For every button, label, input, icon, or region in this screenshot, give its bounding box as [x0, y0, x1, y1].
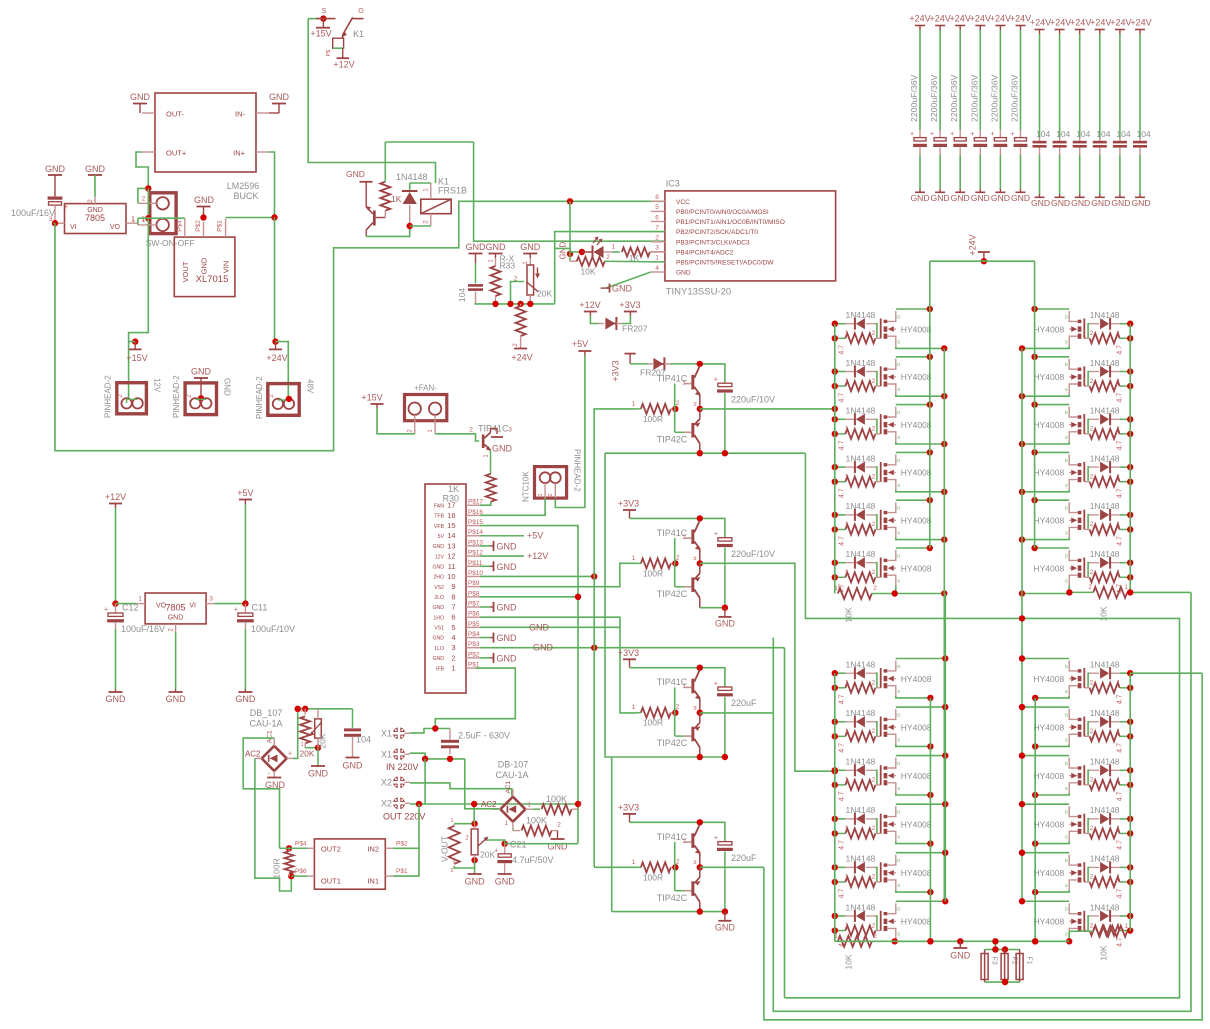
svg-text:S: S	[897, 339, 900, 344]
wire source QUR2	[1019, 393, 1069, 399]
svg-text:2: 2	[1088, 585, 1092, 591]
diode 1N4148 QUL6	[845, 549, 875, 569]
svg-text:S: S	[897, 578, 900, 583]
diode 1N4148 QUL1	[845, 310, 875, 330]
svg-text:1: 1	[538, 493, 544, 496]
wire diode loop QLL2	[835, 722, 877, 737]
svg-text:5: 5	[655, 204, 659, 211]
svg-text:GND: GND	[432, 656, 444, 662]
svg-text:TIP42C: TIP42C	[657, 434, 688, 444]
svg-text:C12: C12	[122, 603, 139, 613]
supply +3V3 stage2	[618, 499, 639, 519]
svg-text:AC2: AC2	[245, 750, 261, 759]
svg-text:IN1: IN1	[367, 876, 379, 885]
svg-text:2: 2	[873, 586, 877, 592]
MOSFET HY4008 QLL4	[881, 806, 932, 841]
supply +12V mid-left	[105, 492, 126, 604]
wire bottom-left bus to relay and IC3 VCC	[55, 201, 665, 450]
diode 1N4148 QUR4	[1090, 453, 1120, 473]
svg-text:GND: GND	[1091, 198, 1110, 208]
ground GND at P$2	[480, 653, 517, 664]
svg-text:PB3/PCINT3/CLKI/ADC3: PB3/PCINT3/CLKI/ADC3	[676, 239, 750, 246]
svg-text:PINHEAD-2: PINHEAD-2	[255, 376, 264, 419]
wire +24V node to pinhead3 pin	[276, 342, 289, 399]
wire source QLL5	[896, 889, 934, 895]
wire drain bus lower-left join	[944, 594, 946, 902]
capacitor 100uF/16V C_in	[11, 175, 68, 223]
wire drain QLL6	[896, 898, 949, 904]
resistor R 100R stage4	[632, 858, 680, 882]
wire PB3 net vertical	[474, 142, 665, 241]
resistor 4.7 QLR3	[1084, 778, 1130, 802]
wire drain QUL2	[896, 354, 933, 360]
supply +12V at FR207	[579, 300, 600, 316]
svg-text:+24V: +24V	[990, 14, 1011, 24]
svg-text:FAN: FAN	[434, 503, 444, 509]
svg-text:16: 16	[447, 511, 455, 520]
svg-text:S: S	[897, 435, 900, 440]
connector X1-2	[381, 748, 419, 772]
diode 1N4148 QLR2	[1090, 708, 1120, 728]
diode 1N4148 QLL3	[845, 757, 875, 777]
svg-text:R33: R33	[500, 261, 516, 271]
svg-text:OUT+: OUT+	[166, 149, 187, 158]
transformer T1	[295, 839, 408, 889]
svg-text:1: 1	[1117, 681, 1121, 687]
LM2596 buck module U1	[142, 93, 269, 201]
svg-text:GND: GND	[497, 633, 518, 643]
wire source QLR2	[1032, 743, 1069, 749]
wire source QUL5	[896, 536, 948, 542]
ground GND stage4	[715, 912, 736, 933]
wire +5V down to NTC	[555, 356, 585, 508]
svg-text:GND: GND	[346, 169, 365, 179]
svg-text:-: -	[268, 771, 271, 778]
connector PINHEAD-2 GND	[172, 375, 232, 418]
wire diode loop QLR5	[1088, 867, 1130, 882]
svg-text:IFB: IFB	[436, 666, 445, 672]
svg-text:D: D	[1065, 907, 1069, 912]
capacitor C 104 adc filter	[457, 263, 483, 304]
svg-text:2: 2	[873, 934, 877, 940]
wire net A cross	[785, 453, 1180, 998]
MOSFET HY4008 QUR4	[1033, 454, 1084, 489]
svg-text:P$2: P$2	[195, 220, 202, 232]
svg-text:100R: 100R	[643, 718, 663, 728]
node junction output stage2	[697, 560, 703, 566]
svg-text:1: 1	[131, 217, 135, 224]
capacitor C12 100uF/16V	[104, 603, 165, 705]
MOSFET HY4008 QUR5	[1033, 502, 1084, 537]
svg-text:HY4008: HY4008	[901, 563, 932, 573]
connector PINHEAD-2 48V	[255, 376, 315, 419]
node junction gate QLR1	[1127, 670, 1133, 691]
svg-text:IN-: IN-	[235, 110, 246, 119]
connector X1-1	[381, 727, 410, 740]
svg-text:+FAN-: +FAN-	[414, 384, 437, 393]
node junction gate QUR4	[1127, 464, 1133, 485]
svg-text:2: 2	[513, 343, 519, 347]
svg-text:4.7: 4.7	[1117, 536, 1124, 546]
svg-text:PINHEAD-2: PINHEAD-2	[172, 375, 181, 418]
svg-text:6: 6	[451, 613, 455, 622]
node junction gate QLL6	[832, 913, 838, 934]
svg-text:GND: GND	[466, 242, 487, 252]
svg-text:1N4148: 1N4148	[846, 453, 876, 463]
svg-text:100K: 100K	[526, 816, 547, 826]
wire mains down to AC2	[465, 759, 486, 809]
svg-text:1: 1	[301, 742, 304, 748]
resistor 100R feedback	[272, 845, 308, 879]
svg-text:HY4008: HY4008	[1033, 819, 1064, 829]
svg-text:1N4148: 1N4148	[846, 854, 876, 864]
svg-text:1LO: 1LO	[434, 646, 444, 652]
svg-text:S: S	[1065, 578, 1068, 583]
wire bases stage4	[674, 842, 676, 891]
svg-text:1N4148: 1N4148	[846, 708, 876, 718]
node junction gate QLL4	[832, 816, 838, 837]
svg-text:CAU-1A: CAU-1A	[249, 719, 282, 729]
svg-text:2: 2	[655, 235, 659, 242]
svg-text:GND: GND	[910, 193, 929, 203]
svg-text:+5V: +5V	[527, 531, 543, 541]
wire IC3 pin4 to GND diagonal	[606, 272, 651, 288]
wire diode loop QUR4	[1088, 467, 1130, 482]
svg-text:GND: GND	[168, 615, 184, 622]
connector X2-1	[381, 776, 410, 789]
diode 1N4148 QLR3	[1090, 757, 1120, 777]
svg-text:TFB: TFB	[434, 514, 444, 520]
potentiometer 20K left trimmer	[299, 708, 327, 759]
svg-text:VOUT: VOUT	[181, 261, 190, 282]
wire stage4 output right	[700, 866, 764, 868]
svg-text:48V: 48V	[305, 379, 314, 394]
svg-text:1N4148: 1N4148	[1090, 660, 1120, 670]
svg-text:VI: VI	[189, 603, 196, 610]
wire net B	[764, 673, 1202, 1020]
svg-text:104: 104	[1076, 129, 1090, 139]
svg-text:104: 104	[1036, 129, 1050, 139]
IC U3 TINY13SSU-20	[651, 179, 836, 298]
svg-text:15: 15	[447, 521, 455, 530]
wire P$15 VFB to divider net	[480, 526, 578, 810]
svg-text:1: 1	[632, 704, 636, 711]
svg-text:4.7: 4.7	[839, 393, 846, 403]
capacitor C11 100uF/10V	[234, 603, 295, 705]
svg-text:S: S	[897, 932, 900, 937]
svg-text:HY4008: HY4008	[901, 324, 932, 334]
svg-text:S: S	[1065, 387, 1068, 392]
svg-text:2: 2	[424, 220, 430, 224]
supply +24V at pinhead3	[266, 338, 287, 363]
ground GND at P$13	[480, 541, 517, 552]
diode 1N4148 QUL3	[845, 406, 875, 426]
wire lower-right gate feed	[1130, 672, 1202, 674]
wire diode loop QLR1	[1088, 673, 1130, 688]
potentiometer 20K trimmer	[511, 258, 553, 304]
MOSFET HY4008 QUR1	[1033, 311, 1084, 346]
svg-text:1: 1	[1117, 379, 1121, 385]
capacitor C 220uF stage1	[714, 377, 775, 454]
svg-text:1: 1	[1117, 570, 1121, 576]
svg-text:P$4: P$4	[295, 841, 307, 848]
svg-text:DB-107: DB-107	[498, 760, 529, 770]
svg-text:2200uF/36V: 2200uF/36V	[989, 74, 999, 122]
svg-text:TIP42C: TIP42C	[657, 738, 688, 748]
wire source QLR6	[1032, 938, 1069, 944]
svg-text:FR207: FR207	[622, 324, 648, 334]
wire ADC bus	[474, 303, 554, 305]
svg-text:4.7: 4.7	[1117, 393, 1124, 403]
capacitor C10cer 104 bulk	[1090, 18, 1111, 209]
svg-text:DB_107: DB_107	[250, 708, 283, 718]
svg-text:GND: GND	[497, 603, 518, 613]
svg-text:1N4148: 1N4148	[1090, 854, 1120, 864]
svg-text:M: M	[693, 402, 698, 406]
svg-text:O: O	[358, 8, 364, 15]
svg-text:S: S	[897, 786, 900, 791]
bridge rectifier DB_107 left	[245, 708, 293, 778]
wire source QUL3	[896, 441, 948, 447]
svg-text:104: 104	[1116, 129, 1130, 139]
resistor 100K lower	[513, 816, 561, 836]
ground GND under 20K trimmer	[308, 748, 329, 779]
diode 1N4148 QLR5	[1090, 854, 1120, 874]
svg-text:OUT1: OUT1	[321, 876, 341, 885]
svg-text:1N4148: 1N4148	[846, 501, 876, 511]
supply +3V3 stage1	[611, 354, 636, 382]
ground GND above 7805 pin2	[85, 164, 106, 197]
bridge rectifier DB-107 right	[481, 760, 533, 829]
svg-text:GND: GND	[432, 564, 444, 570]
svg-text:VCC: VCC	[676, 199, 690, 206]
ground GND under 104 snubber	[343, 758, 364, 771]
svg-text:104: 104	[356, 735, 371, 745]
wire gate bus lower-right	[1129, 673, 1131, 931]
svg-text:104: 104	[1096, 129, 1110, 139]
wire stage1 output to gate bus	[700, 406, 838, 412]
resistor 4.7 QUR4	[1084, 474, 1130, 498]
node junction gate QLL5	[832, 864, 838, 885]
wire P$8 joins divider net	[480, 594, 581, 600]
diode 1N4148 QUR5	[1090, 501, 1120, 521]
wire trafo P$2 to out net	[393, 804, 419, 848]
svg-text:AC2: AC2	[481, 800, 497, 809]
wire source QLL3	[896, 792, 934, 798]
node junction gate QUL6	[832, 560, 838, 581]
svg-text:GND: GND	[529, 622, 550, 632]
MOSFET HY4008 QLL3	[881, 758, 932, 793]
svg-text:+: +	[288, 751, 292, 758]
svg-text:+24V: +24V	[1070, 18, 1091, 28]
svg-text:2: 2	[872, 522, 876, 528]
node junction gate QUR5	[1127, 512, 1133, 533]
svg-text:HY4008: HY4008	[1033, 468, 1064, 478]
svg-text:GND: GND	[465, 877, 486, 887]
svg-text:PINHEAD-2: PINHEAD-2	[104, 375, 113, 418]
wire OUT+ node down to XL7015 row	[145, 188, 151, 221]
svg-text:11: 11	[448, 562, 456, 571]
svg-text:S: S	[897, 689, 900, 694]
svg-text:VFB: VFB	[434, 524, 445, 530]
wire source QLL2	[896, 743, 934, 749]
supply +15V at pinhead1	[126, 338, 147, 363]
svg-text:GND: GND	[715, 618, 736, 628]
connector X2-2	[381, 797, 425, 822]
svg-text:GND: GND	[432, 636, 444, 642]
node junction bases stage4	[672, 864, 678, 870]
MOSFET HY4008 QLR2	[1033, 709, 1084, 744]
resistor 10K upper-right pulldown	[1066, 585, 1191, 622]
svg-text:+12V: +12V	[579, 300, 600, 310]
resistor R 100R stage3	[632, 704, 680, 728]
svg-text:M: M	[693, 860, 698, 864]
capacitor C4el 2200uF/36V bulk	[969, 14, 991, 204]
svg-text:S: S	[1065, 531, 1068, 536]
svg-text:2: 2	[872, 379, 876, 385]
svg-text:2: 2	[451, 653, 455, 662]
svg-text:S: S	[322, 8, 327, 15]
svg-text:D: D	[897, 810, 901, 815]
capacitor C3el 2200uF/36V bulk	[949, 14, 971, 204]
svg-text:4.7: 4.7	[1117, 840, 1124, 850]
transistor TIP41C stage3	[657, 670, 701, 713]
svg-text:GND: GND	[191, 367, 212, 377]
MOSFET HY4008 QUR2	[1033, 359, 1084, 394]
node junction gate QUL1	[832, 321, 838, 342]
svg-text:FRS1B: FRS1B	[438, 186, 467, 196]
wire stage4 rail	[630, 822, 725, 841]
svg-text:4.7: 4.7	[1117, 743, 1124, 753]
svg-text:D: D	[897, 907, 901, 912]
resistor R 10K pullup	[570, 254, 665, 277]
svg-text:HY4008: HY4008	[901, 674, 932, 684]
node junction gate QUR2	[1127, 368, 1133, 389]
wire GND bottom rail	[835, 938, 1069, 944]
resistor 4.7 QUL6	[835, 570, 881, 594]
svg-text:GND: GND	[308, 769, 329, 779]
capacitor C 2.5uF-630V	[441, 729, 510, 755]
wire source QUR3	[1019, 441, 1069, 447]
svg-text:2: 2	[169, 628, 175, 632]
wire source QLR3	[1032, 792, 1069, 798]
svg-text:D: D	[897, 314, 901, 319]
node junction gate QLR2	[1127, 719, 1133, 740]
svg-text:+3V3: +3V3	[618, 648, 639, 658]
MOSFET HY4008 QUL4	[881, 454, 932, 489]
node junction collector stage1	[697, 361, 703, 367]
transistor TIP41C stage2	[657, 520, 701, 563]
node junction gate QLR3	[1127, 767, 1133, 788]
svg-text:CAU-1A: CAU-1A	[495, 770, 528, 780]
svg-text:+24V: +24V	[266, 353, 287, 363]
node junction gate QUR3	[1127, 416, 1133, 437]
svg-text:+24V: +24V	[1010, 14, 1031, 24]
capacitor C1el 2200uF/36V bulk	[909, 14, 931, 204]
svg-text:TIP42C: TIP42C	[657, 589, 688, 599]
svg-text:+: +	[494, 847, 498, 854]
svg-text:2: 2	[450, 868, 453, 874]
wire node to SW pin2	[138, 188, 148, 203]
resistor 4.7 QUR2	[1084, 379, 1130, 403]
svg-text:HY4008: HY4008	[901, 468, 932, 478]
node junction gate QUL5	[832, 512, 838, 533]
svg-text:5V: 5V	[438, 534, 445, 540]
svg-text:13: 13	[447, 541, 455, 550]
wire X1-1 row	[410, 725, 450, 733]
svg-text:2: 2	[469, 427, 473, 434]
resistor 4.7 QUL3	[835, 427, 881, 451]
supply +3V3 stage4	[618, 802, 639, 822]
svg-text:D: D	[897, 761, 901, 766]
node junction C12/VO	[112, 600, 118, 606]
capacitor C 220uF stage4	[714, 835, 757, 912]
wire XL7015 VIN to +24V node	[226, 214, 278, 220]
svg-text:220uF/10V: 220uF/10V	[731, 394, 775, 404]
svg-text:GND: GND	[991, 193, 1010, 203]
svg-text:1N4148: 1N4148	[846, 310, 876, 320]
svg-text:12V: 12V	[153, 378, 162, 393]
resistor 4.7 QLL6	[835, 923, 881, 947]
ground GND at IC3 pin4	[601, 284, 633, 294]
svg-text:2200uF/36V: 2200uF/36V	[1010, 74, 1020, 122]
svg-text:X1: X1	[381, 729, 392, 739]
svg-text:HY4008: HY4008	[1033, 674, 1064, 684]
ground GND at LM2596 OUT-	[130, 92, 151, 113]
svg-text:P$4: P$4	[177, 220, 184, 232]
svg-text:20K: 20K	[537, 289, 552, 299]
svg-text:HY4008: HY4008	[901, 771, 932, 781]
svg-text:P$3: P$3	[468, 641, 480, 648]
svg-text:XL7015: XL7015	[196, 274, 229, 285]
wire + to 20K trimmer	[293, 709, 353, 759]
svg-text:4.7uF/50V: 4.7uF/50V	[512, 855, 554, 865]
resistor 4.7 QUR5	[1084, 522, 1130, 546]
svg-text:GND: GND	[971, 193, 990, 203]
wire drain QLL4	[896, 801, 949, 807]
svg-text:OUT-: OUT-	[166, 110, 184, 119]
regulator XL7015 U2	[174, 218, 235, 296]
ground GND above C_in	[45, 164, 66, 175]
ground GND at fan driver	[491, 437, 513, 454]
svg-text:GND: GND	[533, 643, 554, 653]
node junction output stage1	[697, 406, 703, 412]
capacitor C12cer 104 bulk	[1130, 18, 1151, 209]
wire stage2 output to lower-left gate	[700, 563, 838, 774]
capacitor C11cer 104 bulk	[1110, 18, 1131, 209]
svg-text:1N4148: 1N4148	[846, 358, 876, 368]
svg-text:GND: GND	[1111, 198, 1130, 208]
svg-text:4.7: 4.7	[1117, 937, 1124, 947]
svg-text:P$5: P$5	[468, 621, 480, 628]
wire mains row	[410, 753, 465, 762]
svg-text:GND: GND	[931, 193, 950, 203]
svg-text:1: 1	[1117, 427, 1121, 433]
wire source QUL6	[896, 585, 948, 596]
MOSFET HY4008 QLR1	[1033, 661, 1084, 696]
svg-text:1: 1	[632, 400, 636, 407]
node junction collector stage3	[697, 665, 703, 671]
ground GND at P$11s	[480, 561, 517, 572]
svg-text:S: S	[897, 531, 900, 536]
svg-text:+24V: +24V	[1130, 18, 1151, 28]
node junction C11/VI	[242, 600, 248, 606]
diode 1N4148 QLL4	[845, 805, 875, 825]
node junction bases stage1	[672, 406, 678, 412]
svg-text:NTC10K: NTC10K	[522, 471, 531, 502]
node junction gate QLL1	[832, 670, 838, 691]
wire diode loop QUL5	[835, 515, 877, 530]
